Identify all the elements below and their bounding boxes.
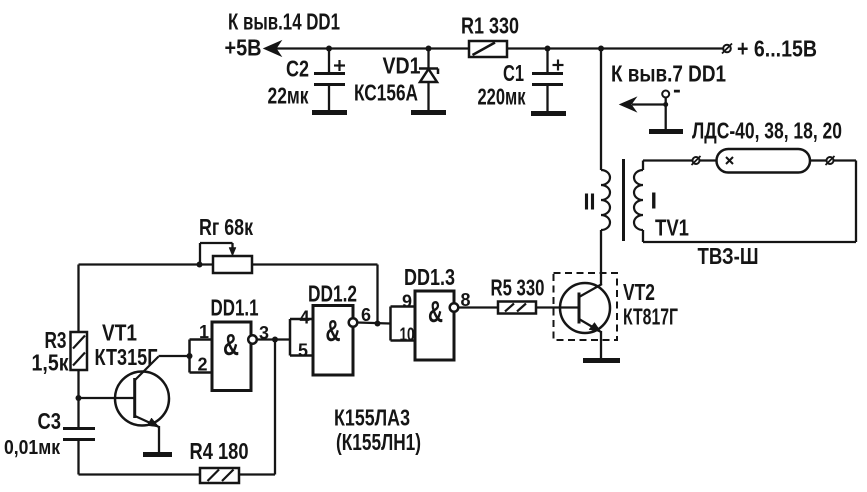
svg-text:R4 180: R4 180 [190, 438, 249, 464]
svg-text:КС156А: КС156А [354, 80, 418, 106]
svg-text:К выв.14 DD1: К выв.14 DD1 [228, 9, 340, 35]
svg-text:+5В: +5В [225, 35, 262, 61]
svg-text:КТ315Г: КТ315Г [95, 344, 158, 370]
svg-text:&: & [326, 313, 341, 348]
svg-text:R1 330: R1 330 [461, 13, 519, 39]
svg-text:I: I [651, 188, 658, 214]
svg-text:К155ЛА3: К155ЛА3 [334, 405, 410, 431]
svg-text:10: 10 [400, 325, 415, 345]
svg-text:Rг 68к: Rг 68к [199, 214, 253, 240]
svg-text:9: 9 [402, 292, 412, 312]
svg-text:R5 330: R5 330 [491, 275, 545, 301]
svg-text:1: 1 [199, 322, 209, 342]
svg-text:-: - [673, 76, 681, 102]
svg-text:5: 5 [298, 341, 308, 361]
svg-text:VD1: VD1 [383, 53, 421, 79]
svg-text:2: 2 [198, 355, 208, 375]
svg-text:6: 6 [361, 305, 371, 325]
svg-text:4: 4 [300, 308, 310, 328]
svg-text:22мк: 22мк [268, 83, 309, 109]
svg-text:&: & [223, 327, 239, 362]
svg-text:+ 6...15В: + 6...15В [737, 36, 817, 62]
svg-text:VT1: VT1 [102, 320, 137, 346]
svg-text:8: 8 [461, 290, 471, 310]
svg-text:220мк: 220мк [478, 84, 526, 110]
svg-text:ТВЗ-Ш: ТВЗ-Ш [698, 243, 759, 269]
svg-text:DD1.2: DD1.2 [308, 281, 357, 307]
svg-text:КТ817Г: КТ817Г [623, 304, 678, 330]
svg-text:С3: С3 [38, 408, 62, 434]
svg-text:VT2: VT2 [623, 279, 655, 305]
svg-text:1,5к: 1,5к [32, 350, 69, 376]
svg-text:(К155ЛН1): (К155ЛН1) [336, 429, 421, 455]
svg-text:3: 3 [259, 323, 269, 343]
svg-text:DD1.3: DD1.3 [404, 264, 455, 290]
svg-text:&: & [428, 294, 443, 329]
svg-text:TV1: TV1 [655, 215, 689, 241]
svg-text:C2: C2 [286, 56, 309, 82]
svg-text:К выв.7 DD1: К выв.7 DD1 [611, 61, 726, 87]
svg-text:C1: C1 [503, 60, 524, 86]
svg-text:ЛДС-40, 38, 18, 20: ЛДС-40, 38, 18, 20 [692, 118, 842, 144]
svg-text:II: II [584, 189, 596, 215]
svg-text:DD1.1: DD1.1 [211, 295, 259, 321]
svg-text:0,01мк: 0,01мк [4, 436, 61, 459]
